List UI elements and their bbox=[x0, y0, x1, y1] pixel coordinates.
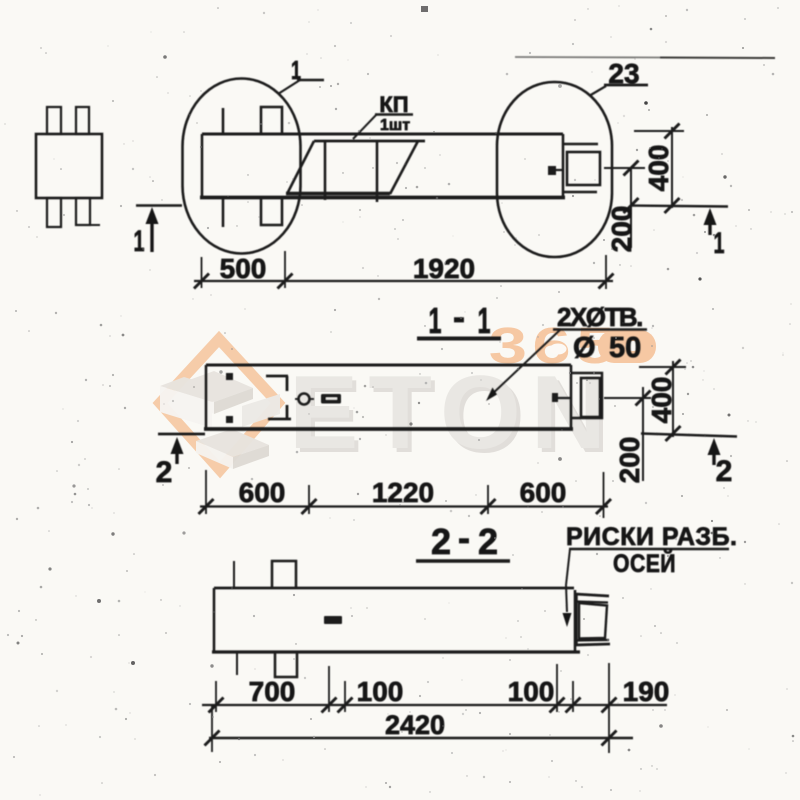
dim line 200 (top view) bbox=[630, 168, 632, 248]
watermark logo diamond ribbon bbox=[160, 339, 278, 470]
anchor dot top bbox=[226, 373, 233, 380]
KP leader bbox=[353, 114, 377, 139]
beam 2-2 left bbox=[213, 588, 216, 652]
svg-text:2: 2 bbox=[431, 521, 451, 562]
svg-text:500: 500 bbox=[220, 253, 267, 284]
svg-text:200: 200 bbox=[614, 437, 645, 484]
ext line mid (top view) bbox=[604, 167, 645, 169]
section arrow right (top view) bbox=[704, 208, 717, 225]
svg-text:400: 400 bbox=[643, 145, 674, 192]
section arrow right (1-1) bbox=[708, 438, 721, 455]
watermark logo blocks bbox=[160, 371, 280, 469]
mid dash 2-2 bbox=[324, 616, 342, 624]
svg-text:1: 1 bbox=[714, 227, 725, 260]
svg-text:50: 50 bbox=[609, 332, 641, 364]
beam right edge (top view) bbox=[562, 134, 565, 198]
KP pad left slant bbox=[287, 141, 314, 194]
beam 1-1 left bbox=[205, 365, 208, 429]
scan fold line bbox=[515, 56, 660, 59]
end view square bbox=[36, 134, 102, 198]
section line left (top view) bbox=[136, 204, 182, 207]
hole leader bbox=[489, 329, 561, 397]
right cap hook bbox=[548, 166, 556, 175]
svg-text:2: 2 bbox=[478, 521, 498, 562]
beam 2-2 top bbox=[214, 587, 574, 590]
dim 200 (1-1) bbox=[642, 387, 644, 481]
detail ellipse 1 bbox=[183, 79, 301, 254]
beam 2-2 bottom bbox=[212, 650, 580, 653]
dim row top view bbox=[194, 280, 613, 282]
svg-text:400: 400 bbox=[646, 377, 677, 424]
corner bracket top bbox=[266, 376, 288, 391]
ext 500 right bbox=[284, 251, 286, 288]
svg-text:РИСКИ РАЗБ.: РИСКИ РАЗБ. bbox=[566, 523, 737, 551]
svg-text:600: 600 bbox=[520, 477, 567, 508]
section line right (1-1) bbox=[641, 434, 737, 437]
end view tab top-left bbox=[47, 107, 61, 134]
dim 400 (1-1) bbox=[672, 361, 674, 437]
right cap bottom line bbox=[563, 191, 597, 194]
dim row 1-1 bbox=[200, 505, 608, 507]
svg-text:-: - bbox=[458, 517, 470, 558]
end view tab bottom-left bbox=[47, 198, 61, 227]
svg-text:23: 23 bbox=[608, 58, 639, 89]
svg-text:100: 100 bbox=[357, 676, 404, 707]
svg-text:200: 200 bbox=[606, 206, 637, 253]
section line left (1-1) bbox=[158, 433, 205, 436]
ext mid (1-1) bbox=[604, 397, 651, 399]
beam top line (top view) bbox=[202, 133, 563, 136]
end bracket 2-2 bbox=[575, 594, 609, 596]
end view tab bottom-right bbox=[76, 198, 90, 225]
beam top bar line bbox=[222, 108, 225, 135]
svg-text:600: 600 bbox=[239, 477, 286, 508]
KP pad bottom edge bbox=[286, 192, 390, 195]
corner bracket bottom bbox=[268, 405, 291, 419]
beam 1-1 right bbox=[570, 365, 573, 429]
svg-text:1920: 1920 bbox=[413, 253, 475, 284]
svg-text:100: 100 bbox=[508, 676, 555, 707]
section arrow left (1-1) bbox=[171, 437, 184, 454]
ext 500 left bbox=[201, 257, 203, 288]
right cap inner rect bbox=[567, 152, 600, 185]
svg-text:2: 2 bbox=[156, 456, 173, 489]
ext 400 top (1-1) bbox=[639, 366, 686, 368]
svg-text:190: 190 bbox=[623, 676, 670, 707]
section line right (top view) bbox=[631, 206, 728, 207]
ext 1920 right bbox=[605, 255, 607, 289]
svg-text:1220: 1220 bbox=[372, 477, 434, 508]
thin bar below bbox=[236, 652, 238, 675]
svg-text:1: 1 bbox=[429, 300, 442, 341]
leader detail 23 bbox=[589, 86, 606, 96]
tab above 2-2 bbox=[272, 561, 296, 588]
ext line 400 top (top view) bbox=[634, 130, 684, 132]
leader detail 1 bbox=[278, 80, 300, 94]
svg-text:1шт: 1шт bbox=[380, 117, 410, 134]
right cap top line bbox=[563, 143, 598, 146]
dim row 2420 bbox=[209, 737, 633, 739]
KP pad vertical 1 bbox=[324, 141, 327, 200]
tab below 2-2 bbox=[275, 652, 297, 677]
cap 1-1 bbox=[571, 373, 602, 418]
dim row 2-2 bbox=[202, 704, 667, 706]
svg-text:1: 1 bbox=[134, 225, 145, 258]
beam 1-1 bottom bbox=[204, 427, 573, 431]
svg-text:1: 1 bbox=[291, 55, 301, 85]
svg-text:Ø: Ø bbox=[573, 332, 596, 364]
beam bottom line (top view) bbox=[200, 196, 565, 200]
KP pad right slant bbox=[390, 141, 418, 194]
end view smear line bbox=[75, 224, 100, 226]
svg-text:2ХØТВ.: 2ХØТВ. bbox=[557, 302, 642, 332]
end view tab top-right bbox=[76, 107, 89, 134]
dim line 400 (top view) bbox=[671, 127, 673, 208]
thin bar above bbox=[233, 561, 235, 588]
beam 1-1 top bbox=[206, 364, 571, 367]
lifting loop circle bbox=[299, 394, 310, 405]
beam bottom bar line bbox=[222, 198, 225, 227]
section arrow left (top view) bbox=[146, 207, 159, 224]
KP pad vertical 2 bbox=[376, 141, 379, 202]
KP pad top edge bbox=[314, 140, 425, 143]
svg-text:2420: 2420 bbox=[385, 710, 445, 740]
beam bottom bar rect bbox=[261, 198, 282, 225]
anchor dot bottom bbox=[226, 416, 233, 423]
beam 2-2 right bbox=[574, 590, 577, 652]
scan noise bbox=[421, 6, 428, 12]
small plate bbox=[321, 394, 341, 404]
svg-text:700: 700 bbox=[249, 676, 296, 707]
cap bracket 1-1 bbox=[581, 378, 600, 417]
svg-text:ОСЕЙ: ОСЕЙ bbox=[613, 548, 676, 578]
beam left edge (top view) bbox=[201, 134, 204, 198]
detail ellipse 23 bbox=[497, 82, 612, 257]
axis marks leader bbox=[566, 549, 570, 612]
svg-text:2: 2 bbox=[716, 455, 733, 488]
cap tick 1-1 bbox=[553, 397, 571, 399]
svg-text:1: 1 bbox=[478, 300, 491, 341]
svg-text:-: - bbox=[453, 296, 465, 337]
beam top bar rect bbox=[261, 107, 282, 134]
